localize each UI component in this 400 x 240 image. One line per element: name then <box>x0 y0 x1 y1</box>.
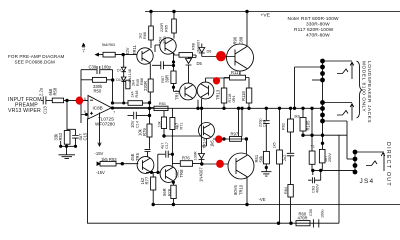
svg-text:0R4: 0R4 <box>232 96 236 103</box>
svg-text:100u: 100u <box>321 210 325 218</box>
svg-text:56R: 56R <box>162 188 167 196</box>
svg-text:R52: R52 <box>58 132 63 140</box>
svg-text:1N4148: 1N4148 <box>128 69 132 82</box>
svg-text:TR9: TR9 <box>163 36 167 43</box>
svg-text:R65: R65 <box>165 25 169 32</box>
svg-text:C15: C15 <box>83 132 88 140</box>
svg-text:82V: 82V <box>125 47 130 55</box>
svg-text:R62: R62 <box>282 123 286 130</box>
svg-text:470R-80W: 470R-80W <box>306 33 330 39</box>
svg-text:1k5: 1k5 <box>273 142 277 148</box>
svg-text:56k: 56k <box>259 155 264 163</box>
svg-text:R71: R71 <box>180 123 184 130</box>
svg-text:TR12: TR12 <box>175 89 180 100</box>
svg-text:+VE: +VE <box>261 13 271 19</box>
svg-text:4k7: 4k7 <box>175 122 180 129</box>
svg-text:5k6: 5k6 <box>102 43 108 47</box>
svg-text:100R: 100R <box>194 151 198 160</box>
svg-text:2.2u: 2.2u <box>39 87 44 96</box>
svg-text:Y1: Y1 <box>311 145 315 149</box>
svg-text:TR14: TR14 <box>202 139 206 148</box>
svg-text:100p: 100p <box>102 64 112 69</box>
svg-text:R96: R96 <box>233 36 238 44</box>
svg-text:10V: 10V <box>130 120 135 128</box>
svg-text:-15V: -15V <box>96 170 105 175</box>
svg-text:C60: C60 <box>263 120 267 127</box>
svg-text:TR10: TR10 <box>239 184 244 195</box>
svg-text:470R: 470R <box>298 216 308 221</box>
svg-text:7: 7 <box>113 111 115 115</box>
svg-text:R76: R76 <box>182 156 190 161</box>
svg-text:D5: D5 <box>197 61 203 66</box>
svg-text:1N4007: 1N4007 <box>197 40 201 53</box>
svg-text:VR13 WIPER: VR13 WIPER <box>8 108 41 114</box>
svg-text:C17: C17 <box>165 142 169 149</box>
svg-text:R78: R78 <box>168 189 172 196</box>
svg-text:+15V: +15V <box>82 43 86 52</box>
svg-text:R105: R105 <box>306 120 311 131</box>
svg-text:C90: C90 <box>309 209 313 216</box>
svg-text:1k4: 1k4 <box>131 91 135 97</box>
svg-text:C14: C14 <box>136 121 140 128</box>
svg-text:D7: D7 <box>117 69 122 73</box>
svg-text:R117 820R-100W: R117 820R-100W <box>294 27 334 33</box>
svg-text:80V6: 80V6 <box>233 185 238 195</box>
svg-text:R79: R79 <box>142 128 147 136</box>
svg-text:R58: R58 <box>53 87 58 95</box>
svg-text:5: 5 <box>84 110 86 114</box>
svg-text:4u7: 4u7 <box>161 143 165 149</box>
svg-text:FOR PRE-AMP DIAGRAM: FOR PRE-AMP DIAGRAM <box>8 54 65 59</box>
svg-text:1N4007: 1N4007 <box>199 167 204 182</box>
svg-text:LOUDSPEAKER JACKS: LOUDSPEAKER JACKS <box>366 61 372 123</box>
svg-text:-15V: -15V <box>95 151 104 156</box>
svg-text:MODEL 8100 ONLY: MODEL 8100 ONLY <box>361 61 367 112</box>
svg-text:400V: 400V <box>316 184 320 193</box>
svg-text:TR5: TR5 <box>135 152 140 161</box>
svg-text:R88: R88 <box>140 78 144 85</box>
svg-text:1k5 R53: 1k5 R53 <box>101 157 117 162</box>
svg-text:R117: R117 <box>231 70 241 75</box>
svg-text:250V: 250V <box>328 153 332 162</box>
svg-text:R48: R48 <box>135 91 139 98</box>
svg-text:R68: R68 <box>192 43 196 50</box>
svg-text:2k4: 2k4 <box>132 80 136 86</box>
svg-text:39R: 39R <box>165 75 170 83</box>
svg-text:3k9: 3k9 <box>294 115 300 119</box>
svg-text:R66: R66 <box>143 32 147 39</box>
svg-text:-VE: -VE <box>259 197 266 202</box>
svg-text:6: 6 <box>84 97 86 101</box>
svg-text:D10: D10 <box>116 78 122 82</box>
svg-text:JS4: JS4 <box>360 178 375 185</box>
svg-text:Note! RST 600R-100W: Note! RST 600R-100W <box>288 16 340 22</box>
svg-text:TR13: TR13 <box>216 89 221 100</box>
svg-text:R67: R67 <box>161 76 165 83</box>
svg-text:10k: 10k <box>158 121 162 127</box>
svg-text:220R: 220R <box>160 23 164 32</box>
svg-text:R63: R63 <box>109 43 115 47</box>
svg-text:SEE PC0688.DGM: SEE PC0688.DGM <box>15 60 56 65</box>
svg-text:C13: C13 <box>43 106 48 114</box>
svg-text:C88: C88 <box>239 36 244 44</box>
svg-text:IC8B: IC8B <box>93 106 103 111</box>
svg-text:45V: 45V <box>159 36 163 43</box>
svg-text:WF07280: WF07280 <box>95 121 115 126</box>
svg-text:TR8: TR8 <box>179 169 184 178</box>
svg-text:D6: D6 <box>207 50 212 54</box>
svg-text:R77: R77 <box>145 176 150 184</box>
svg-text:R97: R97 <box>231 132 239 137</box>
svg-text:1k5: 1k5 <box>210 140 215 147</box>
svg-text:TR11: TR11 <box>132 44 137 55</box>
svg-text:R50: R50 <box>94 88 102 93</box>
svg-text:1k2: 1k2 <box>139 33 143 39</box>
svg-text:DIRECT OUT: DIRECT OUT <box>385 142 391 187</box>
svg-text:R64: R64 <box>284 187 288 194</box>
svg-text:R51: R51 <box>159 102 166 106</box>
svg-text:2n2: 2n2 <box>283 155 287 161</box>
svg-text:R118: R118 <box>241 91 246 101</box>
svg-text:C39: C39 <box>89 64 97 69</box>
svg-text:330R-80W: 330R-80W <box>306 22 330 28</box>
